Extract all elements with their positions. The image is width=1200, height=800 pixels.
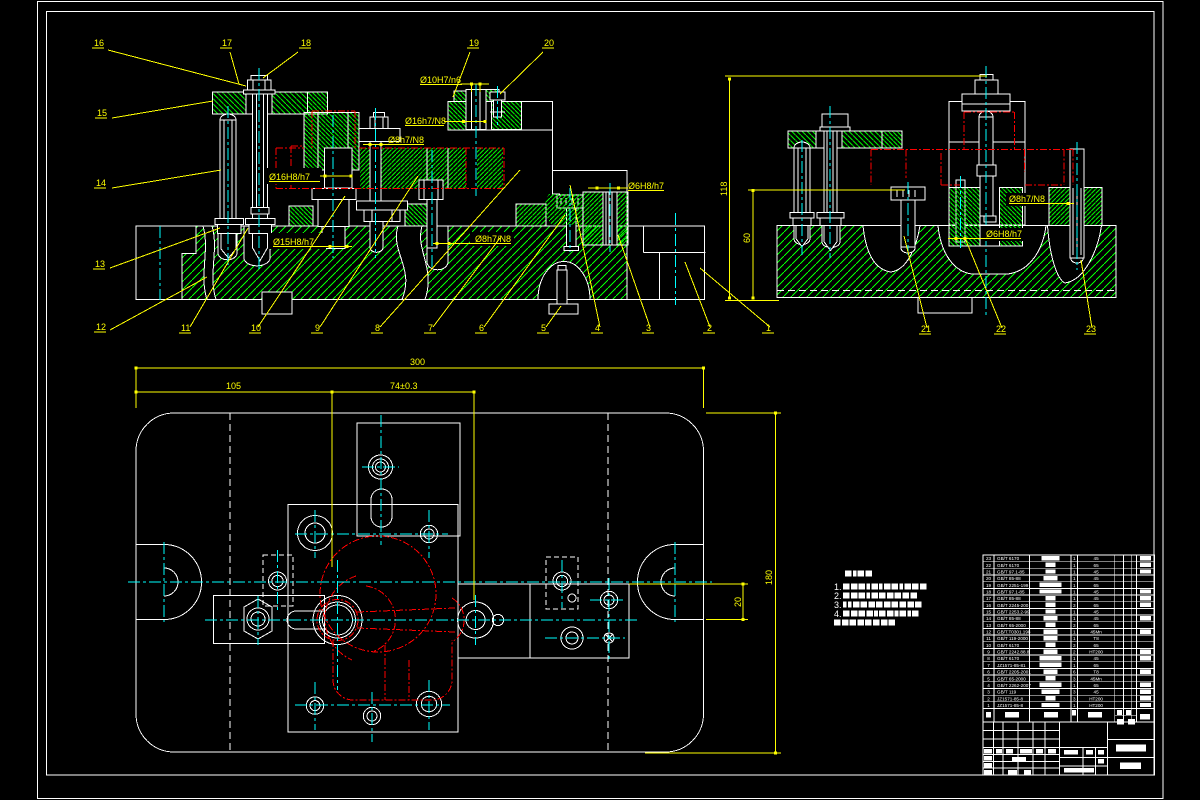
side nut+stud <box>822 114 848 127</box>
base lobes <box>203 226 216 300</box>
svg-text:65: 65 <box>1094 663 1100 668</box>
svg-text:65: 65 <box>1094 563 1100 568</box>
svg-text:1: 1 <box>1073 663 1076 668</box>
svg-text:45: 45 <box>1094 556 1100 561</box>
svg-text:7: 7 <box>428 323 433 333</box>
svg-text:45Mn: 45Mn <box>1090 630 1102 635</box>
central boss column <box>304 113 359 170</box>
T-screw clamp <box>557 195 583 208</box>
svg-text:74±0.3: 74±0.3 <box>390 381 417 391</box>
svg-text:6: 6 <box>1073 670 1076 675</box>
svg-text:45: 45 <box>1094 610 1100 615</box>
svg-text:105: 105 <box>226 381 241 391</box>
svg-text:Ø16H8/h7: Ø16H8/h7 <box>269 172 310 182</box>
svg-text:Ø6H8/h7: Ø6H8/h7 <box>986 229 1022 239</box>
svg-text:GB/T 97.1-85: GB/T 97.1-85 <box>997 570 1025 575</box>
svg-text:JZ1571-85-8: JZ1571-85-8 <box>997 696 1023 701</box>
svg-text:65: 65 <box>1094 623 1100 628</box>
foot pad <box>262 292 292 314</box>
svg-text:3: 3 <box>1073 643 1076 648</box>
svg-text:180: 180 <box>764 570 774 585</box>
workpiece phantom red <box>276 111 504 188</box>
svg-text:GB/T 2251-199: GB/T 2251-199 <box>997 583 1029 588</box>
svg-text:16: 16 <box>94 38 104 48</box>
svg-text:HT200: HT200 <box>1089 703 1103 708</box>
svg-text:GB/T 6170: GB/T 6170 <box>997 556 1020 561</box>
svg-text:12: 12 <box>986 630 992 635</box>
svg-text:T8: T8 <box>1093 670 1099 675</box>
svg-text:Ø6H8/h7: Ø6H8/h7 <box>628 181 664 191</box>
svg-text:3: 3 <box>646 323 651 333</box>
svg-text:15: 15 <box>97 108 107 118</box>
plan plate <box>136 413 704 752</box>
svg-text:GB/T 119-2000: GB/T 119-2000 <box>997 636 1028 641</box>
svg-text:118: 118 <box>719 182 729 196</box>
spring plunger part 14 <box>220 114 236 120</box>
svg-text:20: 20 <box>986 576 992 581</box>
clamp bar part 15 <box>213 92 308 114</box>
svg-text:GB/T 85-88: GB/T 85-88 <box>997 576 1021 581</box>
svg-text:T8: T8 <box>1093 636 1099 641</box>
jig body plan <box>288 505 458 733</box>
centerlines front <box>227 106 229 266</box>
screw part 20 <box>490 92 505 100</box>
svg-text:8: 8 <box>375 323 380 333</box>
svg-text:Ø8h7/N8: Ø8h7/N8 <box>388 135 424 145</box>
svg-text:17: 17 <box>986 596 992 601</box>
svg-text:300: 300 <box>410 357 425 367</box>
svg-text:6: 6 <box>479 323 484 333</box>
svg-text:2: 2 <box>1073 650 1076 655</box>
svg-text:1: 1 <box>1073 630 1076 635</box>
svg-text:45: 45 <box>1094 656 1100 661</box>
svg-text:18: 18 <box>301 38 311 48</box>
svg-text:45: 45 <box>1094 690 1100 695</box>
svg-text:Ø8h7/N8: Ø8h7/N8 <box>475 234 511 244</box>
svg-text:1: 1 <box>1073 596 1076 601</box>
tech notes <box>845 571 852 577</box>
svg-text:11: 11 <box>986 636 991 641</box>
clamp screw assembly <box>370 117 388 129</box>
svg-text:9: 9 <box>987 650 990 655</box>
svg-text:1: 1 <box>1073 576 1076 581</box>
side clamp bar <box>788 131 882 148</box>
svg-text:3: 3 <box>1073 603 1076 608</box>
svg-text:6: 6 <box>987 670 990 675</box>
svg-text:65: 65 <box>1094 643 1100 648</box>
svg-text:45: 45 <box>1094 596 1100 601</box>
svg-text:9: 9 <box>315 323 320 333</box>
right boss hatch <box>1049 188 1102 226</box>
svg-text:18: 18 <box>986 590 992 595</box>
centerlines plan <box>128 581 712 583</box>
svg-text:16: 16 <box>986 603 992 608</box>
svg-text:1: 1 <box>1073 610 1076 615</box>
svg-text:1: 1 <box>1073 703 1076 708</box>
svg-text:10: 10 <box>986 643 992 648</box>
svg-text:14: 14 <box>96 178 106 188</box>
BOM table <box>983 555 1155 709</box>
svg-text:GB/T 119: GB/T 119 <box>997 690 1017 695</box>
svg-text:JZ1571-85-81: JZ1571-85-81 <box>997 663 1026 668</box>
svg-text:GB/T 85-88: GB/T 85-88 <box>997 596 1021 601</box>
svg-text:5: 5 <box>987 676 990 681</box>
side base plate <box>777 226 1116 298</box>
socket screw <box>419 180 443 200</box>
hex nut part 17 <box>251 76 268 81</box>
svg-text:HT200: HT200 <box>1089 696 1103 701</box>
svg-text:Ø16h7/N8: Ø16h7/N8 <box>405 116 446 126</box>
svg-text:3: 3 <box>1073 676 1076 681</box>
svg-text:20: 20 <box>544 38 554 48</box>
svg-text:3: 3 <box>1073 696 1076 701</box>
svg-text:65: 65 <box>1094 603 1100 608</box>
svg-text:7: 7 <box>987 663 990 668</box>
jig arm <box>448 102 521 130</box>
svg-text:8: 8 <box>987 656 990 661</box>
svg-text:1: 1 <box>1073 683 1076 688</box>
side plunger <box>794 142 810 148</box>
side rod <box>1070 149 1084 258</box>
svg-text:GB/T 2245-200: GB/T 2245-200 <box>997 603 1029 608</box>
bushing seat <box>289 206 313 226</box>
svg-text:45: 45 <box>1094 576 1100 581</box>
flanged bushing part 10 <box>325 148 353 188</box>
main bore <box>313 596 362 645</box>
svg-text:20: 20 <box>733 597 743 607</box>
svg-text:3: 3 <box>1073 690 1076 695</box>
svg-text:17: 17 <box>222 38 232 48</box>
post wall hatch <box>949 188 980 247</box>
svg-text:JZ1571-85-8: JZ1571-85-8 <box>997 703 1023 708</box>
svg-text:Ø8h7/N8: Ø8h7/N8 <box>1009 194 1045 204</box>
svg-text:1: 1 <box>1073 616 1076 621</box>
svg-text:11: 11 <box>181 323 190 333</box>
svg-text:3: 3 <box>1073 623 1076 628</box>
svg-text:HT200: HT200 <box>1089 650 1103 655</box>
stud part 18 <box>253 94 268 208</box>
svg-text:60: 60 <box>742 233 752 243</box>
stud lower nut <box>246 218 276 224</box>
svg-text:13: 13 <box>986 623 992 628</box>
svg-text:1: 1 <box>1073 556 1076 561</box>
svg-text:65: 65 <box>1094 583 1100 588</box>
right block plan <box>458 584 629 658</box>
left U-slot <box>136 545 202 620</box>
svg-text:1: 1 <box>1073 563 1076 568</box>
base plate section <box>136 226 627 300</box>
svg-text:GB/T 6170: GB/T 6170 <box>997 563 1020 568</box>
side T-screw <box>891 187 925 200</box>
title block <box>983 722 1155 775</box>
right drill bushing <box>583 192 628 245</box>
svg-text:45: 45 <box>1094 590 1100 595</box>
svg-text:23: 23 <box>986 556 992 561</box>
svg-text:GB/T.T0301.198: GB/T.T0301.198 <box>997 630 1031 635</box>
svg-text:1: 1 <box>1073 590 1076 595</box>
svg-text:5: 5 <box>541 323 546 333</box>
svg-text:21: 21 <box>986 570 992 575</box>
svg-text:1: 1 <box>1073 636 1076 641</box>
svg-text:GB/T 97.1-85: GB/T 97.1-85 <box>997 590 1025 595</box>
svg-text:19: 19 <box>986 583 992 588</box>
svg-text:Ø15H8/h7: Ø15H8/h7 <box>273 237 314 247</box>
svg-text:Ø10H7/n6: Ø10H7/n6 <box>420 75 461 85</box>
svg-text:1: 1 <box>1073 570 1076 575</box>
svg-text:1: 1 <box>1073 656 1076 661</box>
svg-text:GB/T 2253.2-99: GB/T 2253.2-99 <box>997 610 1030 615</box>
locating pin <box>956 180 965 242</box>
svg-text:4: 4 <box>987 683 990 688</box>
plan phantom red <box>320 536 436 652</box>
svg-text:15: 15 <box>986 610 992 615</box>
svg-text:2: 2 <box>987 696 990 701</box>
side phantom red <box>871 148 1073 150</box>
side base lobes <box>863 226 920 272</box>
svg-text:GB/T 85-88: GB/T 85-88 <box>997 616 1021 621</box>
svg-text:1: 1 <box>987 703 990 708</box>
svg-text:GB/T 2262-2007: GB/T 2262-2007 <box>997 683 1031 688</box>
svg-text:GB/T 2205-2001: GB/T 2205-2001 <box>997 670 1031 675</box>
top plate plan <box>357 423 460 536</box>
svg-text:14: 14 <box>986 616 992 621</box>
centerlines side <box>801 140 803 255</box>
svg-text:4.: 4. <box>834 609 842 619</box>
svg-text:45Mn: 45Mn <box>1090 676 1102 681</box>
drill bushing part 19 <box>448 102 466 130</box>
svg-text:GB/T 6170: GB/T 6170 <box>997 656 1020 661</box>
svg-text:GB/T 65-2000: GB/T 65-2000 <box>997 676 1026 681</box>
svg-text:45: 45 <box>1094 570 1100 575</box>
svg-text:45: 45 <box>1094 616 1100 621</box>
svg-text:GB/T 2242.88.8: GB/T 2242.88.8 <box>997 650 1030 655</box>
svg-text:65: 65 <box>1094 683 1100 688</box>
svg-text:1: 1 <box>1073 583 1076 588</box>
lower clamp screw <box>557 270 567 304</box>
clamp post <box>949 102 1025 225</box>
svg-text:12: 12 <box>96 322 106 332</box>
svg-text:3: 3 <box>987 690 990 695</box>
left clamp block plan <box>214 596 325 644</box>
svg-text:GB/T 6170: GB/T 6170 <box>997 643 1020 648</box>
svg-text:13: 13 <box>95 259 105 269</box>
svg-text:23: 23 <box>1086 324 1096 334</box>
svg-text:GB/T 65-2000: GB/T 65-2000 <box>997 623 1026 628</box>
svg-text:19: 19 <box>469 38 479 48</box>
right U-slot <box>638 545 704 620</box>
svg-text:22: 22 <box>986 563 992 568</box>
